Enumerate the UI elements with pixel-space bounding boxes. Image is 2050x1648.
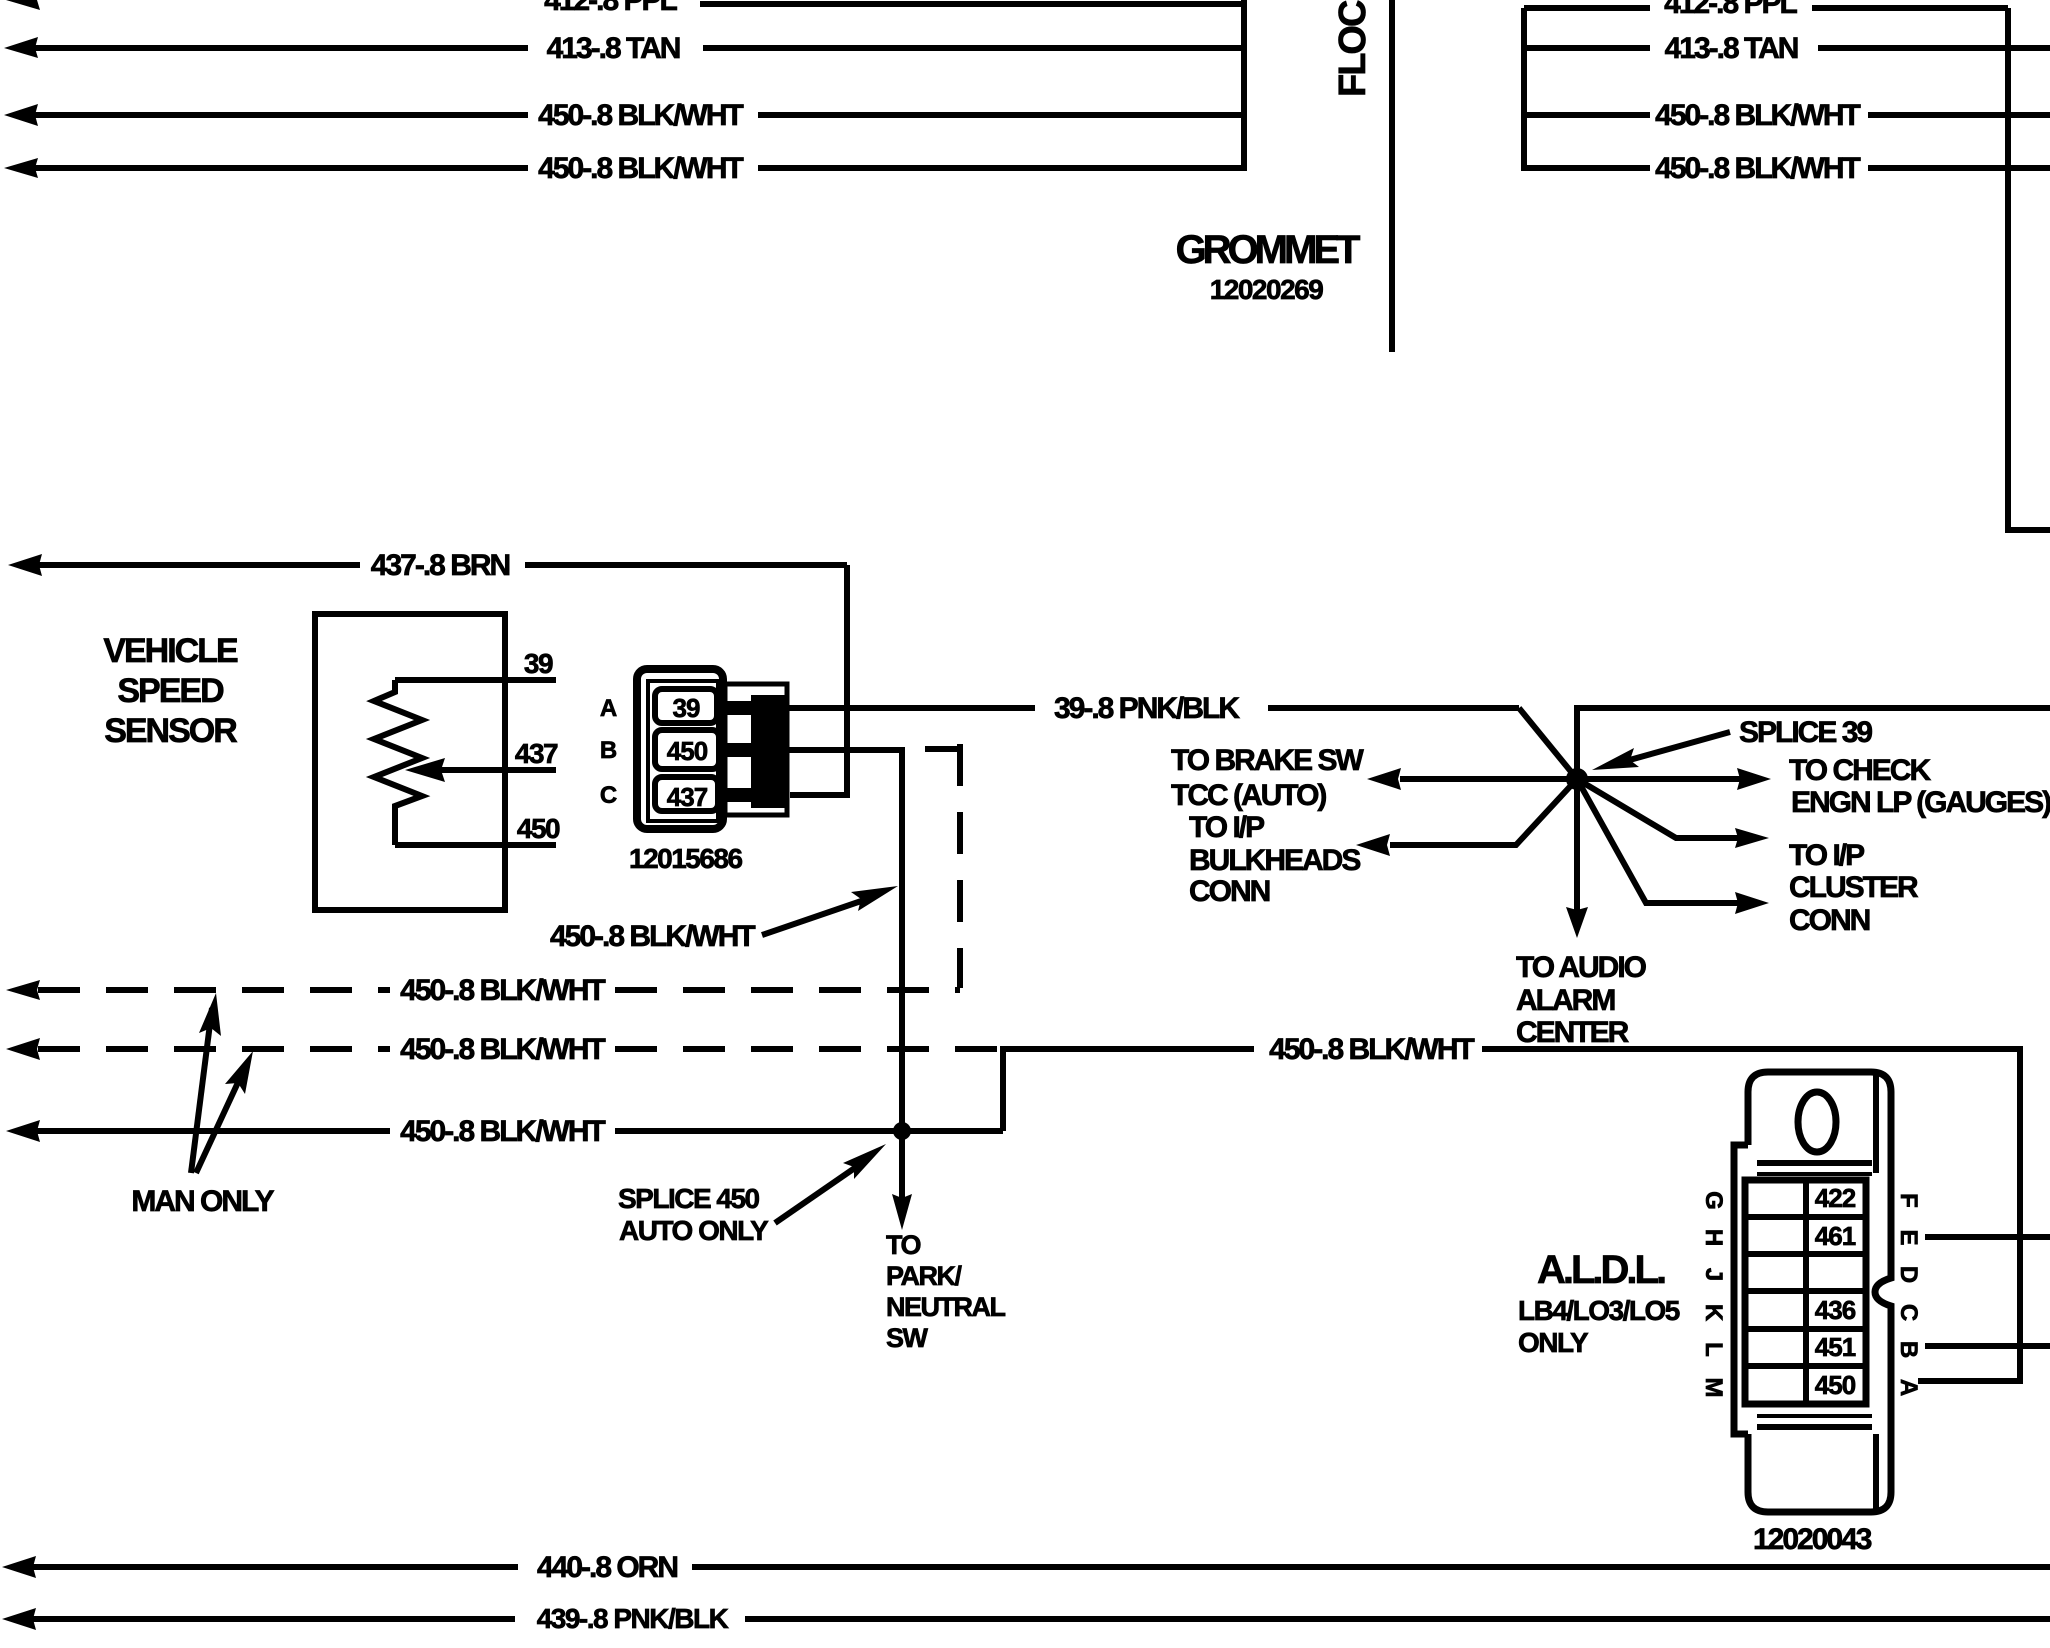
svg-text:CLUSTER: CLUSTER	[1789, 871, 1919, 904]
svg-text:450-.8 BLK/WHT: 450-.8 BLK/WHT	[1655, 152, 1860, 185]
svg-text:A: A	[600, 695, 617, 722]
svg-text:12020269: 12020269	[1210, 274, 1324, 305]
svg-text:M: M	[1700, 1378, 1727, 1397]
svg-text:39-.8 PNK/BLK: 39-.8 PNK/BLK	[1054, 692, 1240, 725]
svg-text:451: 451	[1815, 1332, 1856, 1362]
svg-text:SPLICE 39: SPLICE 39	[1739, 716, 1872, 749]
svg-text:E: E	[1895, 1229, 1922, 1245]
svg-text:12015686: 12015686	[629, 843, 743, 874]
svg-text:437-.8 BRN: 437-.8 BRN	[371, 549, 510, 582]
svg-text:440-.8 ORN: 440-.8 ORN	[537, 1551, 677, 1584]
svg-text:A.L.D.L.: A.L.D.L.	[1537, 1248, 1665, 1292]
svg-text:413-.8 TAN: 413-.8 TAN	[547, 32, 680, 65]
svg-text:450: 450	[517, 813, 560, 844]
svg-text:436: 436	[1815, 1295, 1856, 1325]
svg-text:412-.8 PPL: 412-.8 PPL	[544, 0, 677, 17]
svg-text:F: F	[1895, 1193, 1922, 1207]
svg-text:422: 422	[1815, 1183, 1856, 1213]
svg-text:PARK/: PARK/	[886, 1261, 963, 1291]
svg-text:450-.8 BLK/WHT: 450-.8 BLK/WHT	[400, 974, 605, 1007]
svg-text:461: 461	[1815, 1221, 1856, 1251]
svg-text:412-.8 PPL: 412-.8 PPL	[1664, 0, 1797, 20]
svg-text:SPEED: SPEED	[117, 672, 224, 710]
svg-text:C: C	[600, 782, 617, 809]
svg-text:NEUTRAL: NEUTRAL	[886, 1292, 1005, 1322]
svg-text:450-.8 BLK/WHT: 450-.8 BLK/WHT	[400, 1033, 605, 1066]
svg-text:BULKHEADS: BULKHEADS	[1189, 844, 1360, 877]
svg-text:K: K	[1700, 1304, 1727, 1322]
svg-text:CENTER: CENTER	[1516, 1016, 1630, 1049]
svg-text:MAN ONLY: MAN ONLY	[131, 1185, 274, 1218]
svg-text:TO CHECK: TO CHECK	[1789, 754, 1931, 787]
svg-text:B: B	[600, 737, 617, 764]
svg-text:A: A	[1895, 1379, 1922, 1396]
svg-text:J: J	[1700, 1268, 1727, 1280]
svg-text:450-.8 BLK/WHT: 450-.8 BLK/WHT	[538, 99, 743, 132]
svg-text:ALARM: ALARM	[1516, 984, 1614, 1017]
svg-text:D: D	[1895, 1266, 1922, 1283]
svg-text:450: 450	[1815, 1370, 1856, 1400]
svg-text:SENSOR: SENSOR	[104, 712, 237, 750]
svg-text:TCC (AUTO): TCC (AUTO)	[1171, 779, 1326, 812]
svg-text:LB4/LO3/LO5: LB4/LO3/LO5	[1518, 1295, 1680, 1326]
svg-text:B: B	[1895, 1341, 1922, 1358]
svg-text:437: 437	[515, 738, 558, 769]
svg-text:TO AUDIO: TO AUDIO	[1516, 951, 1647, 984]
svg-text:VEHICLE: VEHICLE	[103, 632, 238, 670]
svg-text:FLOC: FLOC	[1332, 0, 1374, 97]
svg-text:TO I/P: TO I/P	[1789, 839, 1864, 872]
svg-text:450: 450	[667, 736, 708, 766]
svg-text:TO BRAKE SW: TO BRAKE SW	[1171, 744, 1364, 777]
svg-text:CONN: CONN	[1789, 904, 1870, 937]
svg-text:450-.8 BLK/WHT: 450-.8 BLK/WHT	[400, 1115, 605, 1148]
svg-text:439-.8 PNK/BLK: 439-.8 PNK/BLK	[537, 1603, 729, 1634]
svg-text:450-.8 BLK/WHT: 450-.8 BLK/WHT	[1655, 99, 1860, 132]
svg-text:L: L	[1700, 1342, 1727, 1356]
svg-text:413-.8 TAN: 413-.8 TAN	[1665, 32, 1798, 65]
svg-text:450-.8 BLK/WHT: 450-.8 BLK/WHT	[550, 920, 755, 953]
svg-text:SW: SW	[886, 1323, 929, 1353]
svg-text:ONLY: ONLY	[1518, 1327, 1589, 1358]
svg-text:H: H	[1700, 1229, 1727, 1245]
svg-text:450-.8 BLK/WHT: 450-.8 BLK/WHT	[1269, 1033, 1474, 1066]
svg-text:G: G	[1700, 1191, 1727, 1209]
svg-text:437: 437	[667, 782, 708, 812]
svg-text:39: 39	[673, 693, 700, 723]
svg-text:39: 39	[524, 648, 553, 679]
svg-text:TO I/P: TO I/P	[1189, 811, 1264, 844]
svg-text:C: C	[1895, 1304, 1922, 1321]
svg-text:TO: TO	[886, 1230, 921, 1260]
svg-text:GROMMET: GROMMET	[1176, 228, 1360, 272]
svg-text:AUTO ONLY: AUTO ONLY	[619, 1215, 769, 1246]
svg-text:450-.8 BLK/WHT: 450-.8 BLK/WHT	[538, 152, 743, 185]
svg-text:ENGN LP (GAUGES): ENGN LP (GAUGES)	[1791, 786, 2050, 819]
svg-text:12020043: 12020043	[1753, 1523, 1872, 1556]
svg-text:SPLICE 450: SPLICE 450	[618, 1183, 760, 1214]
svg-text:CONN: CONN	[1189, 875, 1270, 908]
